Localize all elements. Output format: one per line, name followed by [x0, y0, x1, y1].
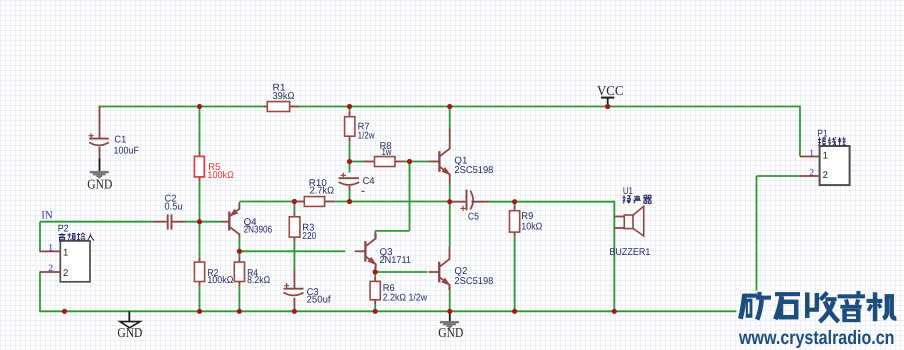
svg-text:2N3906: 2N3906: [244, 225, 273, 236]
junction VCC rail / VCC symbol: [605, 104, 610, 109]
wire output row left (Q4 emitter to R10): [239, 201, 294, 203]
junction output row / C4: [347, 199, 352, 204]
capacitor C1: [89, 133, 139, 158]
svg-text:2SC5198: 2SC5198: [454, 165, 494, 176]
resistor R4: [234, 257, 270, 286]
wire VCC top rail: [100, 106, 265, 108]
junction R8 / Q1 base / feedback: [407, 159, 412, 164]
junction ground rail / R6: [373, 309, 378, 314]
wire C3 bottom stub: [293, 298, 295, 310]
wire Q1 emitter to output node: [449, 185, 451, 202]
wire R10 to C4 node: [335, 201, 350, 203]
svg-text:GND: GND: [87, 177, 112, 192]
junction ground rail / speaker: [612, 309, 617, 314]
power VCC: [597, 83, 624, 107]
wire R8 left stub: [350, 161, 365, 163]
svg-text:100kΩ: 100kΩ: [207, 170, 234, 181]
svg-text:100uF: 100uF: [114, 145, 140, 156]
wire Q3 collector stub: [374, 231, 376, 237]
wire R2 column: [199, 222, 201, 258]
svg-text:0.5u: 0.5u: [165, 202, 183, 213]
connector P2: [40, 223, 91, 281]
transistor Q2: [429, 254, 494, 290]
wire P1 pin2 horizontal: [757, 175, 801, 177]
resistor R1: [264, 82, 299, 111]
wire R3 top stub: [293, 202, 295, 213]
svg-text:1/2w: 1/2w: [358, 131, 376, 142]
wire Q3 emitter to node: [374, 267, 376, 273]
label 接线柱 for P1: [818, 137, 846, 145]
svg-text:2: 2: [48, 263, 53, 274]
svg-text:1: 1: [63, 247, 68, 258]
resistor R3: [289, 212, 316, 242]
svg-text:2.2kΩ 1/2w: 2.2kΩ 1/2w: [383, 292, 428, 303]
wire R6 column: [374, 272, 376, 277]
wire R5 column: [199, 107, 201, 152]
wire feedback vertical x=409.5: [409, 162, 411, 231]
svg-text:C1: C1: [114, 134, 126, 145]
wire R3 bottom / C3 top: [293, 242, 295, 271]
watermark text 矿石收音机: [740, 291, 896, 322]
capacitor C4: [339, 173, 376, 192]
svg-text:1: 1: [48, 243, 53, 254]
svg-text:C5: C5: [468, 211, 479, 222]
svg-text:2SC5198: 2SC5198: [454, 276, 494, 287]
wire Q1 collector column: [449, 107, 451, 129]
svg-text:P2: P2: [58, 223, 69, 234]
svg-text:39kΩ: 39kΩ: [273, 91, 295, 102]
resistor R5 (highlighted): [194, 152, 234, 182]
transistor Q1: [429, 144, 494, 180]
wire C4 column: [349, 162, 351, 173]
capacitor C3: [284, 271, 331, 305]
svg-text:250uf: 250uf: [307, 294, 331, 305]
wire feedback jog horizontal: [375, 230, 409, 232]
wire ground bottom rail: [40, 310, 736, 312]
ground under Q2: [438, 311, 463, 340]
svg-text:GND: GND: [117, 325, 142, 340]
wire P1 pin1 drop: [799, 106, 801, 157]
junction output row / R3: [292, 199, 297, 204]
junction C5 / R9: [512, 199, 517, 204]
resistor R10: [294, 178, 334, 207]
connector P1: [800, 128, 850, 185]
capacitor C5: [451, 190, 490, 223]
wire output row mid (C4 node to C5): [350, 201, 451, 203]
junction ground rail / C3: [292, 309, 297, 314]
svg-text:R9: R9: [521, 211, 533, 222]
junction Q3 emitter / R6 / Q2 base: [373, 269, 378, 274]
junction VCC rail / R5: [197, 104, 202, 109]
svg-text:10kΩ: 10kΩ: [521, 221, 542, 232]
junction ground rail A: [62, 309, 67, 314]
wire P2 input left vertical: [39, 222, 41, 252]
resistor R2: [194, 257, 233, 286]
junction ground rail / Q2 emitter: [447, 309, 452, 314]
svg-text:1: 1: [809, 148, 814, 159]
junction output node Q1-Q2-C5: [447, 199, 452, 204]
wire IN net horizontal: [40, 221, 154, 223]
wire Q2 base row: [375, 271, 427, 273]
wire P1 pin2 drop: [756, 176, 758, 291]
wire R9 bottom to ground rail: [514, 237, 516, 311]
svg-text:2: 2: [63, 268, 68, 279]
svg-text:2: 2: [809, 167, 814, 178]
svg-text:C4: C4: [363, 176, 376, 187]
wire R7 column top: [349, 107, 351, 112]
transistor Q3: [355, 233, 411, 269]
wire Q2 emitter to ground rail: [449, 285, 451, 312]
transistor Q4 (PNP): [222, 202, 273, 237]
resistor R7: [345, 112, 376, 142]
junction VCC rail / Q1 collector: [447, 104, 452, 109]
wire R7 bottom to R8 node: [349, 141, 351, 162]
svg-text:1w: 1w: [382, 147, 393, 158]
wire Q3 base row: [239, 250, 345, 252]
label 扬声器 for U1: [623, 195, 652, 203]
junction R7 / R8: [347, 159, 352, 164]
wire C1 top lead: [99, 106, 101, 139]
junction Q4 collector / R4 / Q3 base: [237, 249, 242, 254]
wire Q4 collector to node: [238, 238, 240, 252]
wire R8 right to Q1 base: [405, 161, 429, 163]
resistor R9: [510, 206, 543, 237]
wire speaker column: [613, 201, 615, 311]
junction IN net / R5 / R2: [197, 219, 202, 224]
svg-text:8.2kΩ: 8.2kΩ: [247, 275, 270, 286]
ground under C1: [87, 159, 112, 192]
capacitor C2: [154, 194, 186, 230]
svg-text:IN: IN: [41, 209, 53, 221]
svg-text:100kΩ: 100kΩ: [207, 275, 233, 286]
svg-text:2N1711: 2N1711: [380, 255, 412, 266]
svg-text:www.crystalradio.cn: www.crystalradio.cn: [738, 327, 894, 349]
svg-text:2: 2: [823, 170, 828, 181]
resistor R8: [365, 141, 406, 167]
svg-text:220: 220: [302, 231, 316, 242]
svg-text:1: 1: [823, 151, 828, 162]
wire R4 column: [238, 251, 240, 257]
ground bottom left: [117, 311, 142, 340]
wire Q2 collector column: [449, 202, 451, 247]
wire R9 top stub: [514, 202, 516, 206]
junction ground rail / R4: [237, 309, 242, 314]
resistor R6: [370, 277, 428, 305]
speaker U1: [609, 186, 650, 258]
svg-text:GND: GND: [438, 325, 463, 340]
junction ground rail / R2: [197, 309, 202, 314]
junction ground rail / R9: [512, 309, 517, 314]
svg-text:VCC: VCC: [597, 83, 624, 98]
svg-text:BUZZER1: BUZZER1: [609, 247, 650, 258]
junction VCC rail / R7: [347, 104, 352, 109]
wire output row right (C5 to speaker): [490, 201, 615, 203]
svg-text:2.7kΩ: 2.7kΩ: [310, 185, 335, 196]
label 音频输入 for P2: [59, 233, 95, 241]
